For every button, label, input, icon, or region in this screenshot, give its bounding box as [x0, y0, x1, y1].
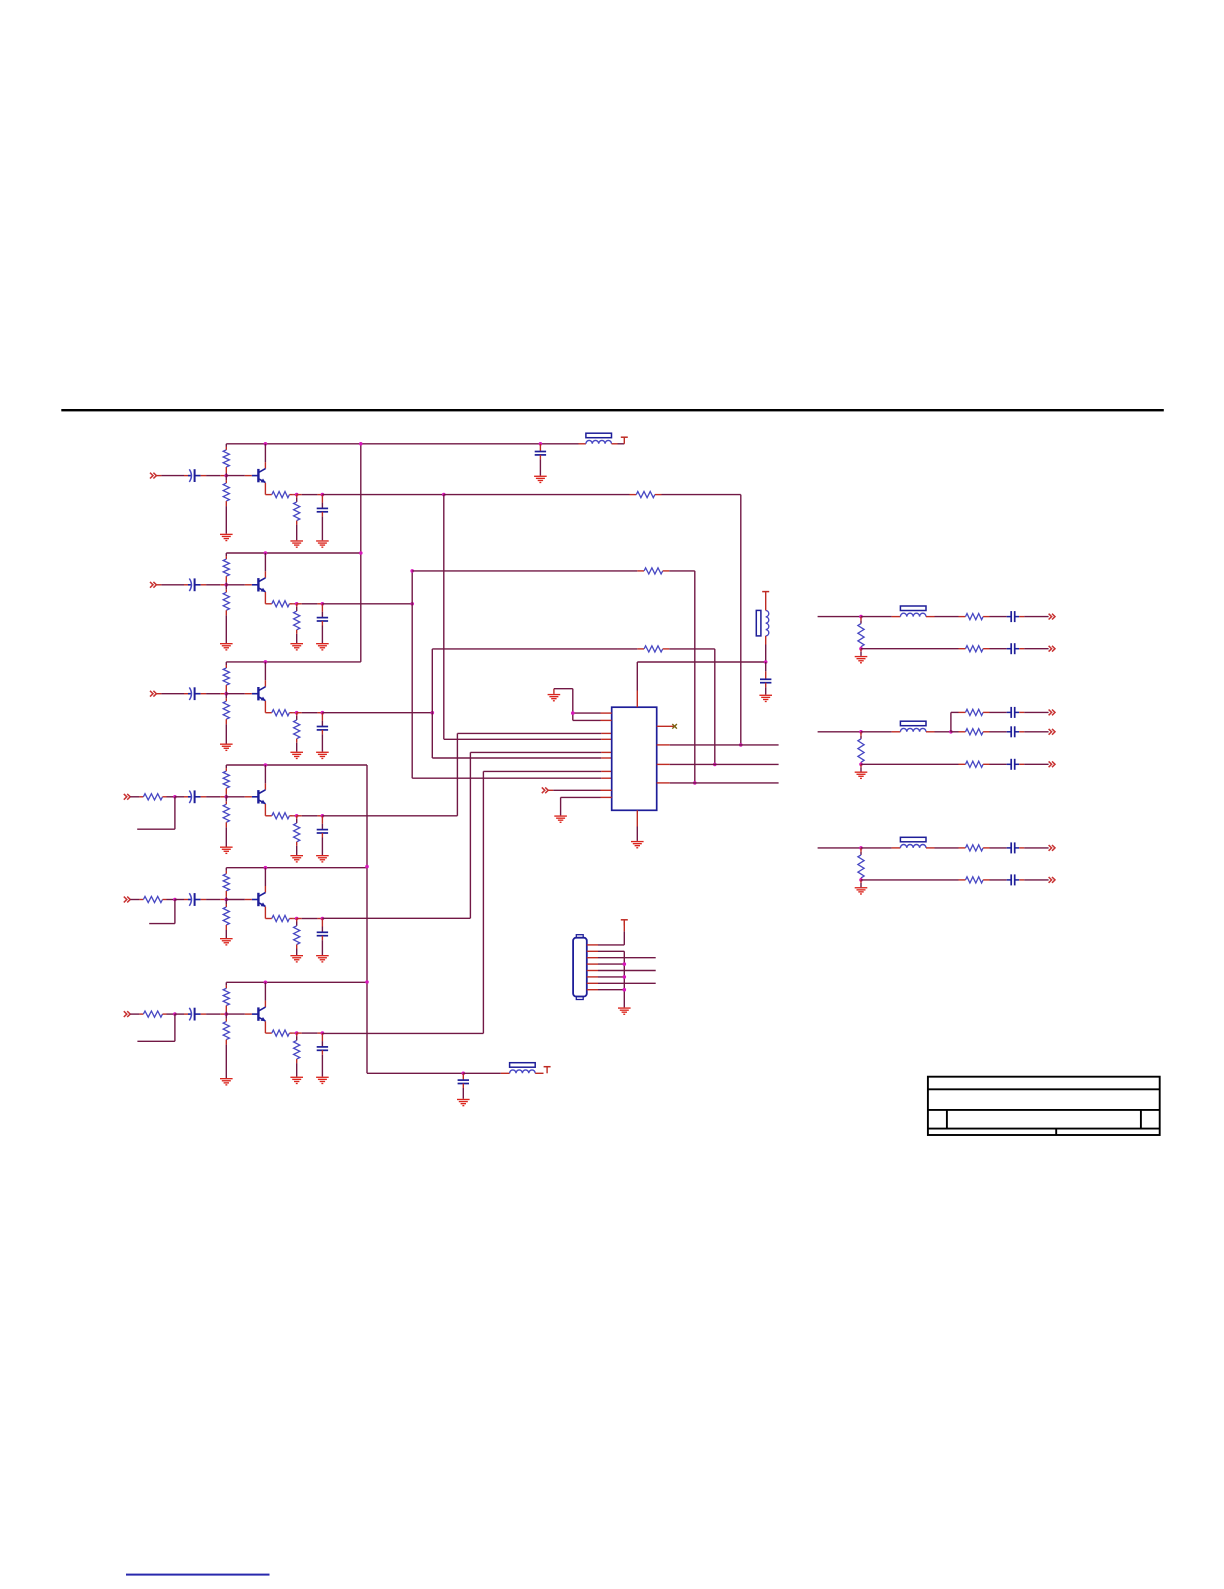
J1 ground bus [598, 951, 624, 1007]
ferrite bead L B [861, 721, 935, 732]
wire S2 tap down to pin8 [411, 604, 413, 778]
J1 pin1 wire to T [598, 921, 624, 945]
node collector junction 2 [264, 551, 268, 555]
ground shunt C [855, 880, 868, 895]
wire resistor to node [163, 1013, 175, 1015]
J1 pin8 stub [587, 989, 598, 991]
wire bead A to resistor [935, 616, 959, 618]
wire capacitor to base node 4 [201, 796, 227, 798]
node shunt bottom B [859, 763, 863, 767]
input port chevron IN6 [124, 1011, 130, 1017]
node S2 feedback corner [410, 569, 414, 573]
filter row B2 resistor cap chevron [951, 726, 1055, 737]
wire S1 tap down to pin4 [443, 495, 445, 740]
wire emitter stub Q4 [265, 804, 271, 816]
node collector junction 4 [264, 763, 268, 767]
wire S1 out to feedback R [444, 494, 637, 496]
wire S6 out right [322, 1032, 483, 1034]
wire input to resistor R6a [130, 1013, 143, 1015]
wire branch B up [950, 712, 952, 731]
wire pin8 horizontal [412, 777, 612, 779]
wire emitter stub Q5 [265, 907, 271, 919]
sheet divider line [61, 409, 1164, 411]
node Rf3 join pin3r [713, 763, 717, 767]
node emitter out B 5 [321, 917, 325, 921]
J1 pin4 stub [587, 963, 598, 965]
J1 pin4 tie [598, 962, 626, 966]
wire S5 out right [322, 917, 470, 919]
resistor R1e shunt [294, 495, 300, 541]
capacitor C5a coupling [188, 893, 201, 906]
resistor R4e shunt [294, 816, 300, 855]
ground bypass cap stage 2 [316, 643, 329, 651]
ground bottom cap [457, 1099, 470, 1107]
node rail cap junction [539, 442, 543, 446]
wire U1 pin3r [657, 763, 779, 765]
ground bias stage 4 [220, 847, 233, 855]
node collector junction 3 [264, 660, 268, 664]
wire input to capacitor C1a [156, 475, 188, 477]
wire bead to VCC T [612, 443, 625, 445]
resistor R1d emitter [272, 492, 290, 498]
wire Rf2 corner down [694, 571, 696, 783]
wire emitter res to node 3 [289, 712, 296, 714]
resistor RAs shunt [858, 617, 864, 649]
node bottom cap junction [462, 1072, 466, 1076]
capacitor C2r bead decoupling [760, 662, 771, 695]
capacitor C3a coupling [188, 687, 201, 700]
node bus S6 rail [365, 980, 369, 984]
U1 pin2 stub [601, 719, 612, 721]
node base junction stage 1 [225, 474, 229, 478]
input port chevron IN1 [150, 473, 156, 479]
node emitter out B 2 [321, 602, 325, 606]
J1 pin3 signal wire [598, 957, 656, 959]
wire pin3 horizontal [457, 732, 611, 734]
wire collector stub Q3 [264, 662, 266, 687]
U1 pin9 stub [601, 789, 612, 791]
capacitor C6a coupling [188, 1008, 201, 1021]
transistor Q4 [226, 790, 265, 804]
wire node to capacitor C5a [175, 899, 188, 901]
wire emitter res to node 1 [289, 494, 296, 496]
node S3 out tap [431, 711, 435, 715]
transistor Q1 [226, 469, 265, 483]
wire emitter stub Q2 [265, 592, 271, 604]
no-connect X mark [672, 724, 677, 729]
input port chevron IN2 [150, 582, 156, 588]
wire resistor to node [163, 796, 175, 798]
J1 pin8 tie [598, 988, 626, 992]
wire feed B [818, 731, 861, 733]
resistor R6a series input [143, 1011, 162, 1017]
ground shunt stage 1 [290, 540, 303, 548]
wire Rf1 to corner [655, 494, 741, 496]
resistor Rf1 feedback [636, 492, 655, 498]
ground rail cap [534, 476, 547, 484]
ground bias stage 2 [220, 643, 233, 651]
J1 pin2 stub [587, 950, 598, 952]
node Rf2 join pin4r [693, 781, 697, 785]
node emitter out A 3 [295, 711, 299, 715]
ground shunt stage 4 [290, 855, 303, 863]
node emitter out B 1 [321, 493, 325, 497]
capacitor C1b bypass [317, 495, 328, 541]
ground shunt B [855, 764, 868, 779]
wire node A to node B 1 [297, 494, 323, 496]
wire pin7 horizontal [483, 770, 611, 772]
filter row B3 resistor cap chevron [861, 759, 1055, 770]
ground bias stage 6 [220, 1078, 233, 1086]
resistor R4b bias upper [223, 765, 229, 797]
node base junction stage 4 [225, 795, 229, 799]
wire pin6 horizontal [432, 757, 611, 759]
ground bias stage 1 [220, 534, 233, 542]
wire capacitor to base node 6 [201, 1013, 227, 1015]
ferrite bead L3 bottom [510, 1063, 536, 1074]
wire S2 out to tap [322, 603, 412, 605]
node emitter out A 1 [295, 493, 299, 497]
resistor R6d emitter [272, 1030, 290, 1036]
wire S3 tap up [431, 649, 433, 713]
ground bypass cap stage 5 [316, 955, 329, 963]
node base junction stage 2 [225, 583, 229, 587]
wire S3 tap down to pin6 [431, 713, 433, 758]
capacitor C6b bypass [317, 1033, 328, 1077]
wire bead L3 to T [535, 1072, 543, 1074]
node S2 out tap [410, 602, 414, 606]
filter row A2 resistor cap chevron [861, 643, 1055, 654]
wire bus2 corner to cap node [367, 1072, 463, 1074]
node emitter out B 4 [321, 814, 325, 818]
node feed junction C [859, 846, 863, 850]
wire collector stub Q6 [264, 982, 266, 1007]
resistor RCs shunt [858, 848, 864, 880]
node bus S2 rail [359, 551, 363, 555]
power terminal T2 [762, 592, 769, 602]
power terminal T4 [544, 1067, 551, 1074]
ferrite bead L C [861, 837, 935, 848]
node shunt bottom C [859, 878, 863, 882]
resistor R2c bias lower [223, 585, 229, 643]
wire node A to node B 2 [297, 603, 323, 605]
wire Rf3 to corner [663, 648, 715, 650]
wire S2 tap up [411, 571, 413, 604]
resistor R3b bias upper [223, 662, 229, 694]
ground bypass cap stage 6 [316, 1077, 329, 1085]
wire input to resistor R5a [130, 899, 143, 901]
wire emitter res to node 4 [289, 815, 296, 817]
wire rail S1 to bead [579, 443, 586, 445]
J1 pin5 signal wire [598, 970, 656, 972]
resistor R5a series input [143, 896, 162, 902]
wire collector rail stage 1 [226, 443, 578, 445]
power terminal T1 [621, 437, 628, 444]
wire S3 out to tap [322, 712, 432, 714]
wire S5 up to pin5 [469, 752, 471, 918]
wire cap node to bead L3 [463, 1072, 509, 1074]
capacitor C2b bypass [317, 604, 328, 643]
node feed junction B [859, 730, 863, 734]
resistor R4c bias lower [223, 797, 229, 847]
wire input to capacitor C2a [156, 584, 188, 586]
wire collector stub Q1 [264, 444, 266, 469]
op-amp U1 body [612, 707, 657, 810]
ferrite bead L A [861, 606, 935, 617]
J1 pin5 stub [587, 970, 598, 972]
wire feed C [818, 847, 861, 849]
ground U1 pins12 L-wire [548, 689, 601, 721]
input port chevron IN4 [124, 794, 130, 800]
resistor R1c bias lower [223, 476, 229, 534]
node Rf1 join pin2r [739, 743, 743, 747]
node bus S5 rail [365, 865, 369, 869]
wire S4 out right [322, 815, 457, 817]
wire collector stub Q2 [264, 553, 266, 578]
wire node A to node B 6 [297, 1032, 323, 1034]
wire input to capacitor C3a [156, 693, 188, 695]
wire bus lower stages [366, 765, 368, 1073]
wire S6 up to pin7 [482, 771, 484, 1033]
wire Rf3 corner down [714, 649, 716, 765]
node emitter out A 4 [295, 814, 299, 818]
J1 pin1 stub [587, 944, 598, 946]
wire node A to node B 3 [297, 712, 323, 714]
U1 top pin wire [637, 662, 765, 707]
node bus S1 rail [359, 442, 363, 446]
wire S1 out to pin4 tap [322, 494, 443, 496]
node U1 pin1 junction [571, 711, 575, 715]
node stub wire stage 4 [137, 795, 177, 829]
wire capacitor to base node 2 [201, 584, 227, 586]
ground bead cap [759, 695, 772, 703]
capacitor C4b bypass [317, 816, 328, 855]
ground shunt stage 3 [290, 752, 303, 760]
wire S3 to feedback R3 [432, 648, 644, 650]
node collector junction 5 [264, 866, 268, 870]
wire capacitor to base node 5 [201, 899, 227, 901]
wire collector stub Q5 [264, 868, 266, 893]
wire emitter res to node 2 [289, 603, 296, 605]
wire emitter res to node 6 [289, 1032, 296, 1034]
J1 pin6 stub [587, 976, 598, 978]
resistor R6c bias lower [223, 1014, 229, 1078]
wire Rf1 corner down [740, 495, 742, 745]
capacitor C3b bypass [317, 713, 328, 752]
resistor R4d emitter [272, 813, 290, 819]
resistor Rf3 feedback [644, 646, 663, 652]
capacitor C4a coupling [188, 790, 201, 803]
wire node to capacitor C6a [175, 1013, 188, 1015]
wire U1 pin4r [657, 782, 779, 784]
J1 pin6 tie [598, 975, 626, 979]
node emitter out A 2 [295, 602, 299, 606]
title block [928, 1077, 1160, 1135]
wire pin4 horizontal [444, 738, 612, 740]
resistor R3e shunt [294, 713, 300, 752]
wire collector rail stage 4 [226, 764, 367, 766]
resistor R5d emitter [272, 915, 290, 921]
resistor R2e shunt [294, 604, 300, 643]
node collector junction 6 [264, 981, 268, 985]
resistor R1b bias upper [223, 444, 229, 476]
U1 pin1 stub [601, 712, 612, 714]
wire collector rail stage 5 [226, 867, 367, 869]
wire emitter stub Q3 [265, 701, 271, 713]
ground bypass cap stage 4 [316, 855, 329, 863]
resistor R5b bias upper [223, 868, 229, 900]
transistor Q2 [226, 578, 265, 592]
resistor R2d emitter [272, 601, 290, 607]
J1 pin3 stub [587, 957, 598, 959]
filter row B1 resistor cap chevron [951, 707, 1055, 718]
ground shunt stage 2 [290, 643, 303, 651]
wire capacitor to base node 3 [201, 693, 227, 695]
node shunt bottom A [859, 647, 863, 651]
connector J1 body [573, 935, 587, 1000]
wire bead C to resistor [935, 847, 959, 849]
wire resistor to node [163, 899, 175, 901]
resistor R6e shunt [294, 1033, 300, 1077]
ground bypass cap stage 3 [316, 752, 329, 760]
input port chevron IN3 [150, 691, 156, 697]
node emitter out B 6 [321, 1031, 325, 1035]
ground shunt stage 6 [290, 1077, 303, 1085]
U1 bottom pin wire [636, 810, 638, 841]
resistor R2b bias upper [223, 553, 229, 585]
wire node A to node B 5 [297, 918, 323, 920]
node branch B [949, 730, 953, 734]
resistor Rf2 feedback [644, 568, 663, 574]
wire bus upper stages [360, 444, 362, 662]
resistor R6b bias upper [223, 982, 229, 1014]
ground bias stage 5 [220, 938, 233, 946]
capacitor C1r rail decoupling [535, 444, 546, 476]
wire emitter res to node 5 [289, 918, 296, 920]
transistor Q5 [226, 893, 265, 907]
wire U1 pin2r [657, 744, 779, 746]
wire S2 to feedback R2 [412, 570, 644, 572]
resistor R3c bias lower [223, 694, 229, 744]
input port chevron pin9 [542, 787, 601, 793]
power terminal T3 [621, 920, 628, 926]
node stub wire stage 6 [137, 1012, 176, 1041]
wire capacitor to base node 1 [201, 475, 227, 477]
J1 pin7 signal wire [598, 982, 656, 984]
wire node A to node B 4 [297, 815, 323, 817]
revision underline [126, 1574, 270, 1576]
filter row C1 resistor cap chevron [959, 842, 1056, 853]
U1 NC pin stub [657, 725, 676, 727]
resistor R5c bias lower [223, 900, 229, 939]
input port chevron IN5 [124, 897, 130, 903]
filter row C2 resistor cap chevron [861, 874, 1055, 885]
capacitor C5b bypass [317, 919, 328, 956]
node S1 out tap [442, 493, 446, 497]
node bead cap junction [764, 660, 768, 664]
node base junction stage 5 [225, 898, 229, 902]
wire feed A [818, 616, 861, 618]
ground shunt stage 5 [290, 955, 303, 963]
wire bead B to branch node [935, 731, 951, 733]
ground shunt A [855, 649, 868, 664]
ferrite bead L1 on S1 rail [586, 433, 612, 444]
wire collector rail stage 2 [226, 552, 360, 554]
ground bias stage 3 [220, 744, 233, 752]
capacitor C2a coupling [188, 578, 201, 591]
ground U1 bottom [631, 841, 644, 849]
resistor R5e shunt [294, 919, 300, 956]
capacitor C1a coupling [188, 469, 201, 482]
wire pin5 horizontal [470, 751, 611, 753]
wire Rf2 to corner [663, 570, 695, 572]
resistor R3d emitter [272, 710, 290, 716]
ground J1 bus [618, 1007, 631, 1015]
wire collector rail stage 3 [226, 661, 360, 663]
wire input to resistor R4a [130, 796, 143, 798]
node emitter out A 5 [295, 917, 299, 921]
resistor R4a series input [143, 794, 162, 800]
node feed junction A [859, 615, 863, 619]
node base junction stage 3 [225, 692, 229, 696]
wire collector stub Q4 [264, 765, 266, 790]
filter row A1 resistor cap chevron [959, 611, 1056, 622]
wire S4 up to pin3 [456, 733, 458, 815]
transistor Q6 [226, 1007, 265, 1021]
ground U1 pin10 [554, 797, 600, 823]
wire emitter stub Q6 [265, 1021, 271, 1033]
transistor Q3 [226, 687, 265, 701]
ground bypass cap stage 1 [316, 540, 329, 548]
node stub wire stage 5 [149, 898, 177, 924]
wire collector rail stage 6 [226, 981, 367, 983]
resistor RBs shunt [858, 732, 864, 765]
ferrite bead L2 vertical [756, 602, 768, 663]
J1 pin7 stub [587, 982, 598, 984]
capacitor C3r bottom [458, 1073, 469, 1099]
node collector junction 1 [264, 442, 268, 446]
U1 pin10 stub [601, 796, 612, 798]
wire emitter stub Q1 [265, 483, 271, 495]
wire node to capacitor C4a [175, 796, 188, 798]
node base junction stage 6 [225, 1012, 229, 1016]
node emitter out A 6 [295, 1031, 299, 1035]
node emitter out B 3 [321, 711, 325, 715]
